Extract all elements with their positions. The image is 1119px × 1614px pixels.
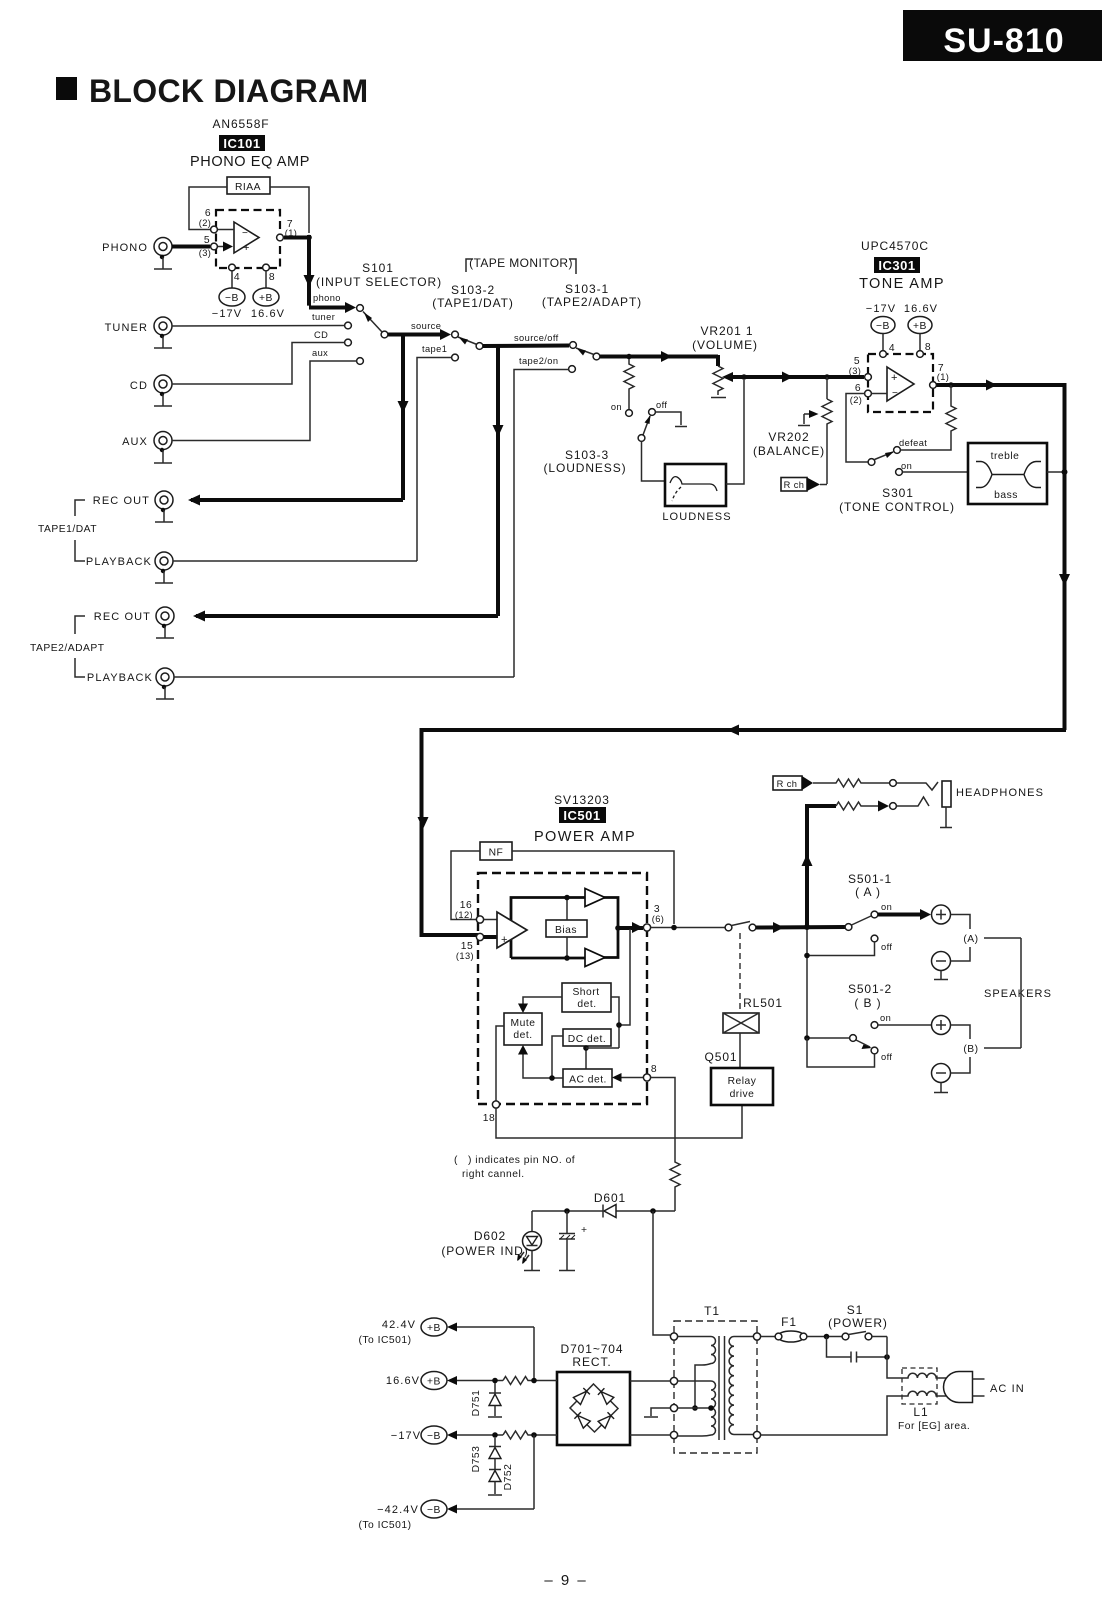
AUX input jack [122,432,172,450]
node balance tap [824,374,830,380]
PHONO input jack [102,238,172,256]
pin 6 (2) [865,390,872,397]
supply -B -17V [212,288,245,320]
bridge diamond with diodes D701-D704 [570,1384,618,1432]
wire S101 common to S103-2 source (thick) [388,321,451,340]
svg-text:T1: T1 [704,1304,720,1318]
svg-text:(LOUDNESS): (LOUDNESS) [543,461,626,475]
wire T1 bottom to L1 [761,1396,906,1435]
op-amp U501 input triangle [484,912,528,948]
ground at REC OUT tape2 [156,624,174,638]
wire off contact to down rail [807,942,875,956]
wire short det to mute det (arrow down) [518,997,562,1013]
svg-text:( A ): ( A ) [855,885,881,899]
svg-text:(VOLUME): (VOLUME) [692,338,758,352]
svg-text:( ) indicates pin NO. of: ( ) indicates pin NO. of [454,1155,575,1166]
svg-text:(3): (3) [849,366,862,376]
zener D753 [471,1438,501,1472]
svg-text:+: + [581,1225,588,1236]
S501-1 common [845,924,852,931]
svg-text:+: + [501,934,507,946]
wire tape2/on contact to playback line [514,370,569,678]
node bias bottom [564,955,570,961]
S301 common node [868,459,875,466]
svg-text:16.6V: 16.6V [904,303,938,315]
node NF tap [671,925,677,931]
svg-text:S301: S301 [882,486,914,500]
wire TUNER to selector [172,325,345,328]
svg-text:treble: treble [991,451,1020,462]
ground at TUNER jack [154,334,172,348]
AC plug [943,1372,984,1403]
svg-text:aux: aux [312,348,328,358]
terminal headphone Rch [890,780,897,787]
wire S1 to L1 [887,1337,905,1379]
svg-text:+B: +B [427,1323,441,1334]
svg-text:source/off: source/off [514,333,559,343]
svg-text:S1: S1 [847,1303,863,1317]
ground at PLAYBACK tape2 [156,685,174,699]
svg-text:NF: NF [489,848,504,859]
wire bias to rails [566,898,568,959]
wire PHONO jack to pin5 (thick) [172,245,210,249]
wire selector output down to REC OUT tape1 (thick) [398,335,409,501]
svg-text:D753: D753 [471,1446,482,1473]
svg-text:RIAA: RIAA [235,182,261,193]
TUNER input jack [105,317,172,335]
svg-text:tape1: tape1 [422,344,447,354]
ground at REC OUT tape1 [155,508,173,522]
svg-text:drive: drive [730,1089,755,1100]
REC OUT jack tape2 [94,607,174,625]
node loudness return [741,374,747,380]
ground at VR201 [711,397,726,399]
svg-text:det.: det. [513,1030,532,1041]
svg-text:right cannel.: right cannel. [462,1169,525,1180]
ground stub at off contact [656,412,688,427]
svg-text:+B: +B [427,1377,441,1388]
svg-text:Relay: Relay [728,1076,757,1087]
svg-text:(TAPE1/DAT): (TAPE1/DAT) [432,296,513,310]
svg-text:(BALANCE): (BALANCE) [753,444,825,458]
IC501 label plate [559,807,606,823]
rail 42.4V [358,1318,534,1381]
pin 8 [917,351,924,358]
svg-text:POWER AMP: POWER AMP [534,829,636,845]
svg-text:18: 18 [483,1113,495,1124]
wire RIAA to output node [270,187,309,233]
svg-text:+B: +B [913,321,927,332]
ground at PLAYBACK tape1 [155,569,173,583]
node cap return [884,1354,890,1360]
svg-text:on: on [611,402,622,412]
supply +B 16.6V [251,288,285,320]
svg-text:(13): (13) [456,951,474,961]
svg-text:R ch: R ch [777,779,798,789]
wire pin6 feedback to tone switch [846,394,868,463]
wire relay contact to speakers (thick) [756,922,845,933]
svg-text:−17V: −17V [212,308,242,320]
potentiometer VR202 balance [822,399,832,484]
svg-text:DC det.: DC det. [568,1034,606,1045]
svg-text:on: on [901,461,912,471]
svg-text:(2): (2) [850,395,863,405]
zener D752 [488,1464,514,1495]
svg-text:CD: CD [130,380,148,392]
svg-text:off: off [881,942,892,952]
RIAA feedback box [227,177,270,194]
label TAPE MONITOR bracket [466,256,576,274]
svg-text:D602: D602 [474,1229,506,1243]
svg-text:−B: −B [427,1431,441,1442]
rail -42.4V [358,1435,534,1531]
svg-text:bass: bass [994,490,1018,501]
wire to REC OUT tape2 (thick, arrow left) [193,611,498,622]
S103-1 common node [593,353,600,360]
terminal headphone Lch [890,803,897,810]
svg-text:(INPUT SELECTOR): (INPUT SELECTOR) [316,275,442,289]
svg-text:D701~704: D701~704 [561,1342,624,1356]
S103-2 wiper [458,337,477,345]
PLAYBACK jack tape2 [87,668,174,686]
node feedback/output junction [306,235,312,241]
bracket speaker B [951,1025,1022,1073]
svg-text:Bias: Bias [555,925,577,936]
relay contact RL501 [725,922,756,931]
pin 5 (3) [865,374,872,381]
heading BLOCK DIAGRAM [56,73,368,109]
wire pin5 to noninverting input with arrow [217,242,233,252]
PLAYBACK jack tape1 [86,552,173,570]
wire NF output to power amp output node [512,851,674,924]
svg-text:PLAYBACK: PLAYBACK [86,556,152,568]
output stage rails [511,898,618,959]
svg-text:−: − [892,388,898,399]
pin 18 [492,1101,499,1108]
wire pin16 to op-amp inverting input [484,919,498,921]
svg-text:4: 4 [889,343,895,354]
wire rail to S501-2 common [807,1037,850,1039]
S103-3 common node [638,435,645,442]
wire AUX to selector [172,361,357,441]
svg-text:REC OUT: REC OUT [94,611,151,623]
resistor loudness tap [624,359,634,409]
transformer T1 dashed case [674,1321,757,1453]
svg-text:S103-3: S103-3 [565,448,609,462]
Short det box [562,983,611,1012]
diode D601 [603,1205,616,1218]
svg-text:SV13203: SV13203 [554,793,610,807]
wire DC det to AC det [585,1046,587,1069]
wire to headphone jack tip Rch [897,782,939,790]
right rail down to power amp loop (thick) [1059,383,1070,730]
pin 7 (1) [930,382,937,389]
svg-text:HEADPHONES: HEADPHONES [956,787,1044,799]
svg-text:IC301: IC301 [878,258,915,273]
S103-3 wiper [643,415,651,435]
wire pin18 to relay drive [496,1106,742,1138]
svg-text:phono: phono [313,293,341,303]
svg-text:IC101: IC101 [223,136,260,151]
node D602 tap [564,1208,570,1214]
CD input jack [130,375,172,393]
wire S501-1 on to speaker A + (thick) [878,909,931,920]
rail -17V [391,1426,557,1444]
ground at speaker B - [934,1083,948,1093]
ground at AUX jack [154,448,172,463]
VR201 wiper arrow [722,372,733,382]
svg-text:TAPE1/DAT: TAPE1/DAT [38,524,97,535]
svg-text:Mute: Mute [511,1018,536,1029]
node rail S501-2 [804,1035,810,1041]
bracket speakers A/B [1020,938,1022,1048]
speaker A - terminal [932,952,951,971]
supply -B -17V for IC301 [866,303,896,351]
svg-text:(6): (6) [652,914,665,924]
rail 16.6V [386,1372,557,1390]
svg-text:AUX: AUX [122,436,148,448]
Bias box [546,920,587,937]
svg-text:−17V: −17V [391,1430,421,1442]
svg-text:42.4V: 42.4V [382,1319,416,1331]
node tone return on rail [1062,469,1068,475]
svg-text:TONE AMP: TONE AMP [859,276,945,292]
NF feedback box [480,842,512,860]
node output junction [615,925,621,931]
wire loudness box to volume wiper node [726,380,744,484]
pin 8 [643,1074,650,1081]
svg-text:det.: det. [577,999,596,1010]
speaker B - terminal [932,1064,951,1083]
filter L1 dashed case [902,1368,937,1404]
wire pin8 to D601 node with resistor [651,1078,681,1212]
svg-text:Short: Short [572,987,599,998]
group label TAPE2/ADAPT [30,616,105,677]
wire off contact loop to rail [807,1038,875,1067]
S103-1 wiper [576,348,594,356]
pin 3 (6) [643,924,650,931]
svg-text:tuner: tuner [312,312,335,322]
headphone jack body [942,781,951,807]
pin 5 (3) [211,243,218,250]
svg-text:S101: S101 [362,261,394,275]
svg-text:8: 8 [651,1064,657,1075]
svg-text:(A): (A) [963,934,978,945]
svg-text:D752: D752 [503,1464,514,1491]
svg-text:PHONO EQ AMP: PHONO EQ AMP [190,154,310,170]
R ch flag (headphones) [773,776,813,790]
svg-text:off: off [881,1052,892,1062]
svg-text:UPC4570C: UPC4570C [861,239,929,253]
node det junction [616,1022,622,1028]
svg-text:(TAPE2/ADAPT): (TAPE2/ADAPT) [542,295,642,309]
svg-text:L1: L1 [913,1405,928,1419]
wire on contact to tone network [903,471,969,473]
svg-text:( B ): ( B ) [854,996,881,1010]
svg-text:off: off [656,400,667,410]
R ch flag (balance) [781,478,827,492]
svg-text:16.6V: 16.6V [386,1375,420,1387]
op-amp U101 triangle [234,222,259,254]
loudness network box [662,464,731,523]
svg-text:RECT.: RECT. [572,1355,611,1369]
svg-text:4: 4 [234,272,240,283]
S103-1 contact source/off [570,342,577,349]
driver upper triangle [585,889,605,907]
switch S1 [842,1332,887,1340]
Mute det box [504,1013,542,1045]
svg-text:TAPE2/ADAPT: TAPE2/ADAPT [30,643,105,654]
svg-text:source: source [411,321,441,331]
wire output to pin3 (thick) [618,922,643,933]
wire det junction to DC/AC node [586,1047,619,1049]
S103-2 contact source [452,331,459,338]
svg-text:CD: CD [314,330,328,340]
wire pin3 to relay contact [651,927,726,929]
bracket speaker A [951,915,1022,962]
wire down to transformer rail [653,1211,670,1335]
title plate SU-810 [903,10,1102,61]
capacitor C601 [559,1211,588,1271]
rail below output [806,929,808,1038]
tone network box treble/bass [968,443,1047,504]
svg-text:D601: D601 [594,1191,626,1205]
svg-text:BLOCK DIAGRAM: BLOCK DIAGRAM [89,73,368,109]
wire AC det output to DC det and mute det [518,1036,563,1081]
wire CD to selector [172,343,345,385]
svg-text:(2): (2) [199,218,212,228]
svg-text:VR202: VR202 [768,430,809,444]
wire tone network to right rail [1047,471,1064,473]
wire L1 to plug [939,1378,953,1396]
svg-text:(3): (3) [199,248,212,258]
svg-text:(TONE CONTROL): (TONE CONTROL) [839,500,955,514]
REC OUT jack tape1 [93,491,173,509]
svg-text:IC501: IC501 [563,808,600,823]
speaker B + terminal [932,1016,951,1035]
svg-text:(B): (B) [963,1044,978,1055]
wire pin8 to AC det (arrow into box) [612,1073,644,1082]
svg-text:PHONO: PHONO [102,242,148,254]
wire detector tap from output [619,929,630,1025]
op-amp U301 triangle [887,367,914,401]
ground at LED [524,1251,540,1271]
T1 primary winding [729,1337,753,1435]
wire S103-1 to VR201 (thick) [600,351,718,366]
wire PLAYBACK tape2 to S103-1 [174,676,514,678]
node bias top [564,895,570,901]
T1 secondary terminals [670,1333,677,1340]
svg-text:(POWER): (POWER) [828,1316,888,1330]
svg-text:(TAPE MONITOR): (TAPE MONITOR) [469,256,573,270]
relay drive box Q501 [711,1068,773,1105]
pin 7 (1) [277,234,284,241]
ground at PHONO jack [154,255,172,269]
speaker A + terminal [932,905,951,924]
pin 6 (2) [211,226,218,233]
rectifier bridge box [557,1372,630,1445]
DC det box [563,1029,611,1046]
svg-text:(To IC501): (To IC501) [358,1520,411,1531]
svg-text:−: − [242,228,248,239]
node 42V rail tap [650,1208,656,1214]
L1 coil upper [905,1373,939,1378]
wire balance tap down [826,377,828,399]
svg-text:+: + [243,242,249,254]
T1 secondary upper winding [678,1337,716,1411]
node fuse/cap [824,1334,830,1340]
wire pin4 to -B [231,271,233,288]
wire to REC OUT tape1 (thick, arrow left) [188,495,403,506]
svg-text:(1): (1) [937,372,950,382]
pin 15 (13) [476,933,483,940]
T1 primary terminals [753,1333,760,1340]
IC101 label plate [219,135,265,151]
svg-text:SPEAKERS: SPEAKERS [984,988,1052,1000]
wire pin8 to +B [265,271,267,288]
svg-text:AN6558F: AN6558F [213,117,270,131]
T1 secondary lower winding [678,1381,716,1436]
svg-text:defeat: defeat [899,438,927,448]
svg-text:−42.4V: −42.4V [377,1504,419,1516]
svg-text:+: + [891,372,897,384]
wire IC101 output (thick) pin7 right then down to selector [284,235,356,313]
svg-text:(POWER IND): (POWER IND) [441,1244,528,1258]
wire D601 rail [532,1210,675,1212]
loop wire to power amp (thick) [418,725,1067,938]
wire PLAYBACK tape1 to S103-2 [173,560,417,562]
resistor NFB defeat [901,385,957,450]
S501-2 wiper [856,1040,872,1049]
ground at T1 center tap [644,1408,671,1417]
svg-text:Q501: Q501 [705,1050,738,1064]
VR202 wiper with ground [798,410,819,426]
relay coil RL501 [723,1013,759,1033]
svg-text:S501-2: S501-2 [848,982,892,996]
svg-text:– 9 –: – 9 – [544,1572,587,1589]
svg-text:TUNER: TUNER [105,322,148,334]
svg-text:6: 6 [855,383,861,394]
capacitor across S1 [827,1337,888,1363]
S103-2 common node [476,343,483,350]
wire feedback pin6 to RIAA [189,187,227,230]
supply +B 16.6V for IC301 [904,303,938,351]
svg-text:R ch: R ch [784,480,805,490]
wire to headphone jack ring [897,797,930,806]
node NFB tap [948,382,954,388]
LED D602 [517,1211,542,1264]
svg-text:For [EG] area.: For [EG] area. [898,1421,970,1432]
svg-text:−B: −B [225,293,239,304]
svg-text:tape2/on: tape2/on [519,356,558,366]
svg-text:LOUDNESS: LOUDNESS [662,511,731,523]
wire IC301 output to right rail (thick) [937,380,1065,391]
node loudness tap [626,354,632,360]
wire tape monitor output down to REC OUT tape2 (thick) [493,346,504,616]
dashed link relay coil to contact [739,933,741,1013]
driver lower triangle [585,949,605,967]
group label TAPE1/DAT [38,500,97,561]
S301 wiper [875,452,895,460]
ground at headphone jack [940,807,952,828]
wire pin6 to op-amp [872,393,888,395]
wire NF input from pin16 [451,851,480,920]
svg-text:8: 8 [925,342,931,353]
svg-text:−B: −B [876,321,890,332]
L1 coil lower [905,1391,939,1396]
zener D751 [471,1383,502,1417]
AC det box [563,1069,612,1087]
